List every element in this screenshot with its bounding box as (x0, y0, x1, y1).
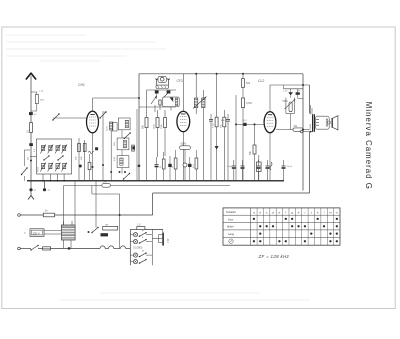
wire tube1 cathode to bus (92, 133, 94, 181)
band filter feed wires (42, 174, 44, 181)
heater winding arcs (100, 246, 105, 249)
wire antenna down (30, 115, 32, 122)
output transformer core (312, 114, 314, 132)
dial lamp box (158, 76, 166, 82)
terminal 37 (44, 181, 46, 188)
wire grid net CL2 (235, 95, 237, 181)
coil box IF detector 3 (117, 156, 129, 168)
trimmer block left (155, 90, 159, 93)
terminal bottom right (301, 130, 303, 132)
elco big (257, 162, 262, 172)
coil box IF detector 2 (117, 138, 129, 150)
svg-text:UR: UR (105, 225, 109, 227)
wire sub-bus Y1 (64, 185, 231, 187)
junction dots output (302, 84, 304, 86)
gang stator posts (156, 79, 158, 86)
switch near transformer (92, 228, 98, 233)
wire pickup to net (55, 214, 153, 216)
coil L14 branch (31, 91, 37, 93)
wire ground bus (27, 180, 284, 182)
speaker cone (331, 118, 333, 128)
capacitor C10 (209, 119, 213, 121)
resistor R13 30k (293, 128, 303, 131)
tuning gang frame (156, 85, 169, 88)
elco C8a (155, 164, 159, 166)
black cap detector (132, 146, 135, 149)
wires converter area (146, 90, 148, 117)
resistor R11 (242, 98, 245, 108)
switch lamp row 2 (133, 240, 137, 244)
svg-text:L103: L103 (107, 125, 109, 131)
wire tube3 anode (269, 85, 271, 112)
svg-text:m: m (142, 250, 144, 253)
pickup terminal (18, 214, 21, 217)
svg-text:3180: 3180 (154, 123, 156, 129)
wire tone stub (283, 85, 285, 89)
switch contacts in band filter (44, 156, 49, 160)
tube CL2 (264, 112, 276, 133)
resistor Dm (102, 184, 111, 188)
svg-text:220 V: 220 V (33, 231, 40, 235)
elco C8b (168, 164, 171, 167)
svg-text:50k: 50k (246, 81, 251, 85)
svg-text:Schalter: Schalter (226, 210, 236, 214)
svg-text:Lang: Lang (228, 232, 234, 236)
wire detector verticals (121, 130, 123, 138)
switch bank frame (129, 229, 131, 265)
resistor R7 (164, 118, 167, 128)
wire mains (51, 248, 100, 250)
svg-text:Mittel: Mittel (227, 225, 234, 229)
tube CF1 (177, 111, 190, 131)
svg-text:CF1: CF1 (177, 79, 184, 83)
series resistor (103, 226, 118, 230)
elco C9 circle (183, 163, 187, 167)
mains switch (31, 246, 38, 251)
speaker secondary ticks (316, 119, 319, 121)
wire antenna to bus (30, 133, 32, 181)
resistor R5 (145, 118, 148, 128)
elco C9b (188, 164, 191, 167)
mains plug terminal (18, 247, 21, 250)
coil L103 (102, 111, 104, 181)
bus capacitors group (232, 165, 236, 167)
wire tube3 cathode (269, 133, 271, 181)
faint header text (6, 34, 86, 36)
resistor R12 (253, 145, 256, 154)
capacitor C14 block (296, 92, 300, 95)
coil small left (112, 123, 117, 131)
capacitor C11 coupling (226, 119, 230, 121)
tone top wire (284, 88, 304, 90)
IF transformer T1 (194, 98, 197, 108)
coil set upper row (41, 146, 44, 151)
svg-text:=: = (24, 231, 26, 235)
oscillator box (163, 97, 180, 107)
svg-text:Minerva Camerad G: Minerva Camerad G (364, 102, 373, 190)
svg-text:7 W: 7 W (167, 238, 170, 243)
antenna (26, 73, 35, 79)
block capacitor (101, 233, 109, 236)
svg-text:CH1: CH1 (78, 83, 85, 87)
svg-text:GEN: GEN (181, 142, 187, 146)
svg-text:50m: 50m (40, 100, 44, 102)
trimmer block right (167, 90, 171, 93)
wire tube2 cathode (182, 132, 184, 181)
wire Y2 link (91, 186, 93, 195)
svg-text:0,5M: 0,5M (246, 101, 252, 105)
wire right vertical to transformer (309, 85, 311, 114)
wire grid feed tube1 (53, 117, 88, 119)
power transformer (61, 225, 75, 240)
resistor 1R (132, 145, 135, 151)
voltage selector box (30, 229, 44, 237)
fuse (43, 247, 51, 250)
resistor R8 (215, 117, 218, 127)
resistor R3 (84, 140, 86, 181)
output connector (162, 229, 164, 232)
inductor squiggle (88, 151, 93, 154)
oscillator coil (175, 98, 178, 106)
svg-text:Kurz: Kurz (228, 217, 234, 221)
trimmer blob (29, 143, 33, 146)
switch table (223, 208, 340, 245)
coil box IF detector 1 (118, 118, 130, 130)
speaker driver element (326, 119, 327, 126)
ground below bus (30, 181, 32, 188)
wire lower horizontal net (153, 192, 310, 194)
coil set lower row (41, 164, 44, 169)
svg-text:0,2µF: 0,2µF (227, 166, 233, 168)
coupling cap C12 (243, 123, 246, 126)
svg-text:CL2: CL2 (258, 79, 264, 83)
potentiometer 5000 bracket (285, 98, 287, 114)
switch lamp row 3 (133, 253, 137, 257)
junction dots left area (138, 97, 140, 99)
black cap mid (95, 147, 98, 150)
resistor Rk3 (195, 158, 198, 169)
resistor R14 (43, 213, 54, 217)
svg-text:5k: 5k (160, 166, 162, 168)
squiggle NTC (270, 162, 272, 170)
resistor Rk2 (174, 158, 177, 169)
wire top HT rail (139, 73, 303, 75)
wire right vertical to lower net (309, 132, 311, 193)
trimmer C1 (29, 112, 33, 115)
resistor R1 (30, 123, 33, 133)
diode on R8 line (215, 146, 219, 150)
speaker housing (315, 116, 329, 129)
junction dots detector (119, 171, 121, 173)
resistor R2 screen (78, 138, 80, 181)
resistor R6 (156, 118, 159, 128)
resistor LS (137, 227, 145, 230)
wire transformer top feeds (310, 105, 312, 114)
switch lamp row 1 (133, 233, 137, 237)
wave switch loop left (24, 149, 30, 151)
wire pot down (290, 114, 292, 130)
GEN resistor (180, 146, 191, 150)
wire tube1 anode up (92, 98, 94, 111)
band filter box (37, 139, 72, 174)
switch detector 1 (124, 133, 130, 139)
svg-text:ZF = 128 kHz: ZF = 128 kHz (258, 254, 290, 259)
wire left vertical x139 (138, 74, 140, 181)
vertical feeds to power section (63, 186, 65, 226)
svg-text:LS: LS (138, 224, 141, 227)
tube CH1 (87, 111, 99, 133)
capacitor C13 triangle (288, 92, 293, 95)
faint footer text (100, 292, 260, 294)
resistor R3b (88, 162, 91, 169)
small cap below gang (159, 100, 161, 105)
resistor Rk1 (162, 159, 165, 169)
svg-text:Dm: Dm (103, 182, 107, 184)
svg-text:3103: 3103 (38, 166, 40, 172)
svg-text:5000: 5000 (283, 101, 289, 103)
switch detector bottom (124, 174, 130, 180)
potentiometer 5000 body (289, 102, 292, 112)
table dots (253, 218, 255, 220)
svg-text:25 µF: 25 µF (287, 166, 293, 168)
bus dots under filter (42, 180, 44, 182)
wire tube2 anode (182, 74, 184, 112)
resistor R10 (242, 79, 245, 88)
wire right vertical from HT rail (302, 74, 304, 191)
oscillator trimmer (170, 98, 174, 103)
gang feed wires (156, 94, 158, 100)
switch right of tube1 (100, 112, 106, 118)
svg-text:0,1M: 0,1M (213, 123, 215, 128)
svg-text:24651: 24651 (310, 123, 312, 130)
switch lamp row 4 (133, 260, 137, 264)
resistor R9 (223, 117, 226, 127)
